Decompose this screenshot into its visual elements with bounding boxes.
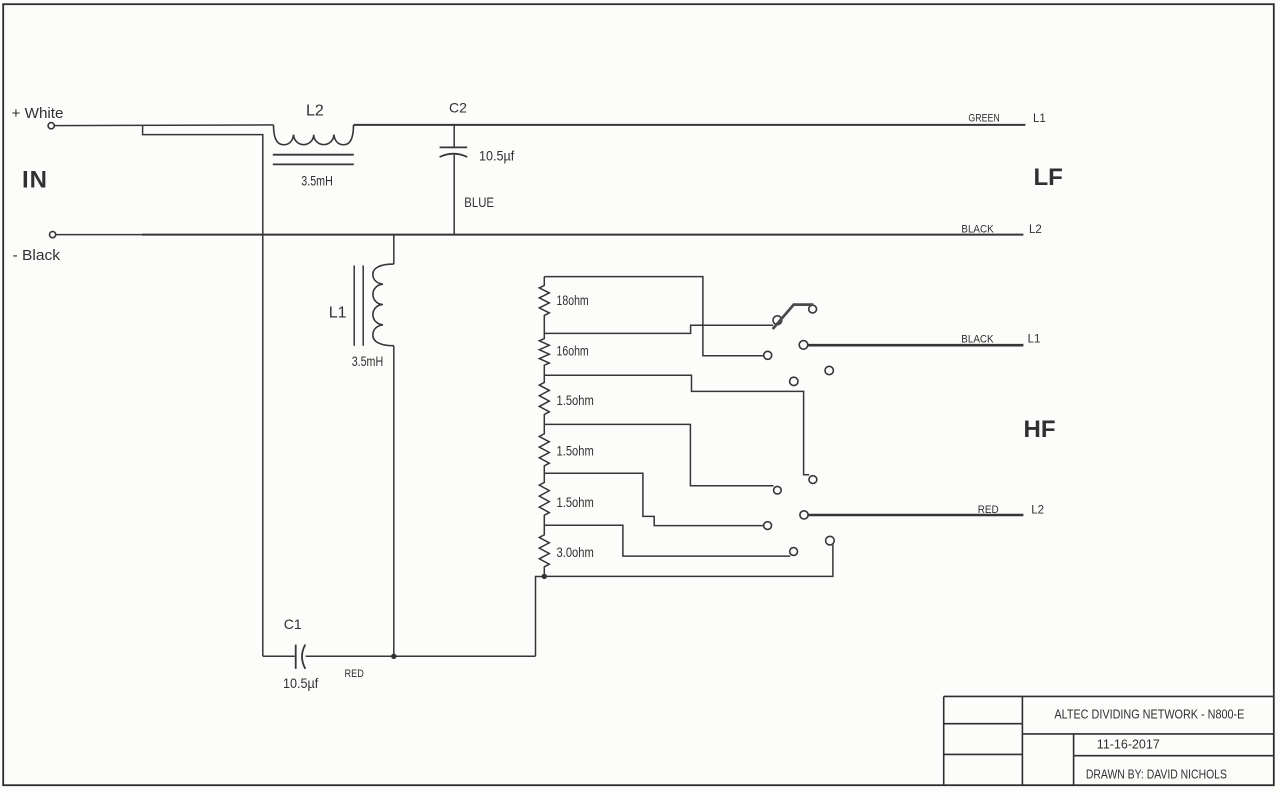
svg-text:C2: C2 bbox=[449, 99, 467, 115]
svg-text:C1: C1 bbox=[284, 616, 302, 632]
svg-text:1.5ohm: 1.5ohm bbox=[557, 443, 594, 458]
svg-text:HF: HF bbox=[1024, 416, 1056, 443]
svg-text:3.0ohm: 3.0ohm bbox=[557, 545, 594, 560]
svg-text:L2: L2 bbox=[1029, 224, 1042, 236]
svg-text:IN: IN bbox=[22, 167, 48, 194]
svg-text:16ohm: 16ohm bbox=[557, 343, 589, 358]
svg-text:+ White: + White bbox=[12, 105, 64, 122]
svg-text:BLUE: BLUE bbox=[464, 194, 494, 210]
svg-text:18ohm: 18ohm bbox=[557, 293, 589, 308]
svg-text:3.5mH: 3.5mH bbox=[301, 173, 333, 189]
svg-text:RED: RED bbox=[345, 668, 365, 680]
svg-text:- Black: - Black bbox=[13, 247, 61, 264]
svg-text:1.5ohm: 1.5ohm bbox=[557, 393, 594, 408]
svg-text:LF: LF bbox=[1034, 164, 1063, 191]
svg-text:RED: RED bbox=[978, 504, 999, 516]
svg-text:L1: L1 bbox=[1033, 113, 1046, 125]
svg-text:GREEN: GREEN bbox=[968, 112, 999, 124]
svg-text:L1: L1 bbox=[1028, 334, 1041, 346]
svg-text:3.5mH: 3.5mH bbox=[352, 353, 384, 369]
svg-text:10.5µf: 10.5µf bbox=[479, 147, 514, 163]
svg-text:L2: L2 bbox=[1031, 505, 1044, 517]
svg-text:DRAWN BY: DAVID NICHOLS: DRAWN BY: DAVID NICHOLS bbox=[1086, 766, 1227, 781]
svg-text:11-16-2017: 11-16-2017 bbox=[1097, 736, 1160, 751]
svg-text:L1: L1 bbox=[329, 305, 347, 322]
svg-text:1.5ohm: 1.5ohm bbox=[557, 495, 594, 510]
svg-text:L2: L2 bbox=[306, 102, 324, 119]
svg-text:ALTEC DIVIDING NETWORK - N80: ALTEC DIVIDING NETWORK - N800-E bbox=[1054, 706, 1244, 721]
svg-text:BLACK: BLACK bbox=[961, 333, 993, 345]
svg-text:BLACK: BLACK bbox=[961, 223, 993, 235]
svg-text:10.5µf: 10.5µf bbox=[283, 675, 318, 691]
